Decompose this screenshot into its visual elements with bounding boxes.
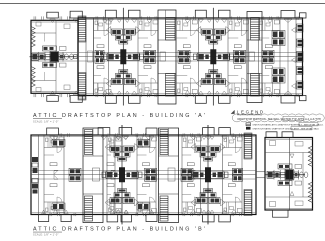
building A left edge sawtooth balconies (31, 27, 35, 88)
unit A2 right (228, 18, 249, 96)
building B main outline (31, 135, 256, 215)
tower interior partitions (265, 138, 313, 211)
building B inner wall lines (31, 137, 256, 213)
building B roof bump-outs top (47, 125, 231, 140)
building B window ticks top wall (60, 133, 241, 136)
svg-text:DRAFTSTOP PARTITION - SEE WALL: DRAFTSTOP PARTITION - SEE WALL SECTION T… (238, 118, 322, 121)
stair tower T2 building B (159, 128, 179, 223)
building A inner wall lines (31, 20, 303, 94)
title building B (33, 226, 207, 236)
building B roof bump-outs bottom (39, 210, 231, 224)
tower top bump-outs (266, 132, 293, 138)
corridor fixture clusters flanking stair S2 (144, 50, 191, 63)
legend item 1 (246, 123, 324, 127)
corridor fixture clusters flanking stair S3 (234, 50, 275, 63)
unit B2 left of core B1 (107, 135, 121, 215)
core column right edge building A (292, 18, 304, 96)
tower inner wall lines (265, 139, 313, 208)
connector walkway (256, 172, 265, 178)
legend revision cloud (232, 114, 324, 122)
unit B3 right (223, 135, 243, 215)
stair tower T1 building B (83, 128, 103, 223)
tower corridor core row (265, 164, 308, 186)
svg-text:ATTIC DRAFTSTOP PLAN - BUILDIN: ATTIC DRAFTSTOP PLAN - BUILDING 'B' (33, 226, 207, 232)
unit B2 right of core B1 (137, 135, 157, 215)
stair S4 building B right (244, 133, 252, 216)
building A roof bump-outs top (47, 8, 295, 23)
building B corridor walls (31, 171, 256, 179)
top border line (0, 3, 325, 5)
tower bottom entry stub (273, 210, 289, 217)
unit A1 left (94, 18, 112, 96)
tower right edge sawtooth balconies (308, 146, 312, 203)
building A left end cap unit (30, 20, 78, 93)
svg-text:SCALE: 1/8" = 1'-0": SCALE: 1/8" = 1'-0" (33, 120, 59, 123)
building B detached right tower outline (265, 138, 313, 211)
unit A3 right end (259, 18, 289, 96)
stair tower S2 building A (158, 10, 176, 104)
core column module B2 (188, 125, 228, 225)
corridor fixture clusters flanking tower T2 (145, 168, 194, 181)
corridor fixture cluster left of tower T1 (69, 168, 81, 181)
svg-text:ATTIC DRAFTSTOP PLAN - BUILDIN: ATTIC DRAFTSTOP PLAN - BUILDING 'A' (33, 113, 207, 119)
core column module B1 (102, 125, 142, 225)
legend item 2 (246, 127, 320, 131)
building B window ticks bottom wall (50, 213, 241, 216)
building A outline (31, 18, 303, 96)
building A corridor walls (31, 53, 303, 61)
core column module A2 (193, 8, 233, 106)
building A window ticks bottom wall (34, 94, 299, 97)
corridor fixture cluster right of stair S1 (95, 50, 104, 63)
unit A2 left (176, 18, 199, 96)
building A right edge bump-outs (300, 13, 307, 101)
stair S1 building A (78, 16, 94, 100)
title building A (33, 113, 207, 124)
unit A1 right (138, 18, 158, 96)
stair tower S3 building A (247, 12, 262, 103)
unit B3 left (182, 135, 201, 215)
core column module A1 (103, 8, 143, 106)
unit B1 left (44, 135, 65, 215)
legend title (231, 110, 265, 115)
svg-text:SCALE: 1/8" = 1'-0": SCALE: 1/8" = 1'-0" (33, 234, 59, 236)
building A roof bump-outs bottom (47, 91, 295, 106)
building A window ticks top wall (34, 16, 299, 19)
corridor fixture cluster left of stair S4 (233, 168, 243, 181)
building B left edge fixture column (32, 135, 39, 215)
